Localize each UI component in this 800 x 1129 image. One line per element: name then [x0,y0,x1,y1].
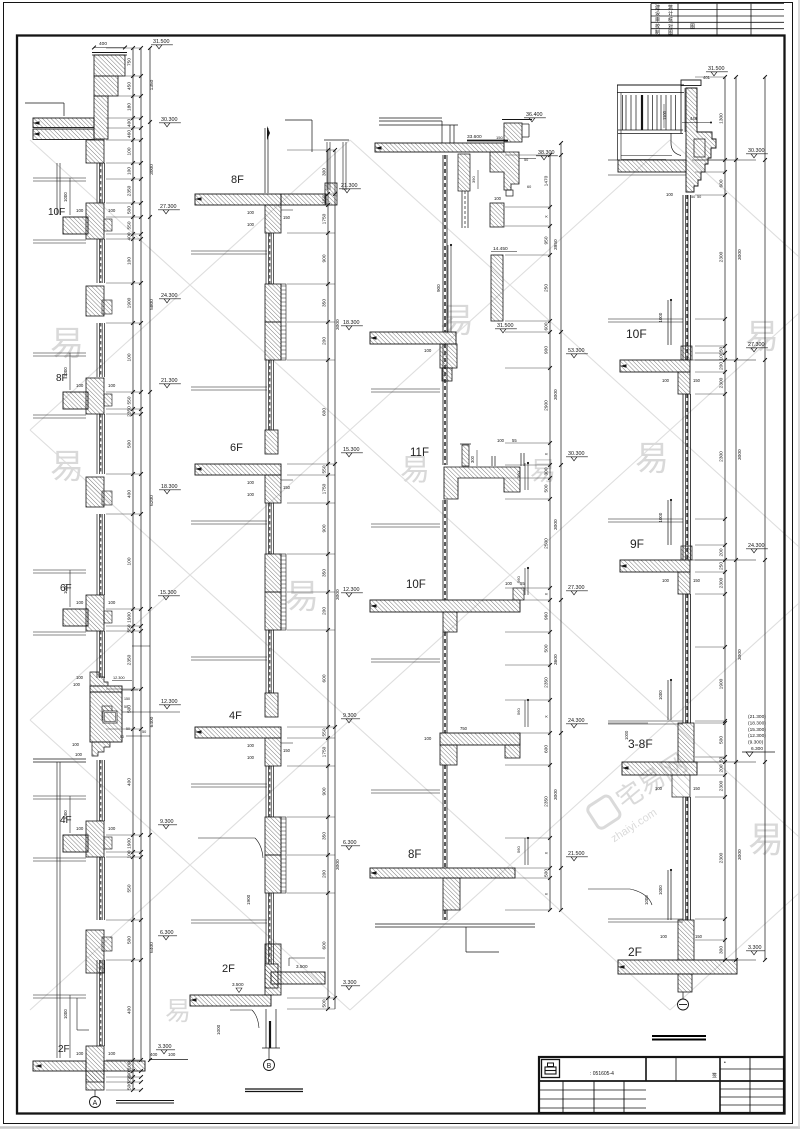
svg-text:200: 200 [719,764,725,772]
svg-text:1900: 1900 [246,894,251,905]
svg-text:900: 900 [322,787,328,795]
svg-text:易: 易 [635,440,669,478]
svg-text:3.300: 3.300 [748,945,762,951]
svg-text:12.300: 12.300 [161,699,178,705]
svg-text:600: 600 [719,179,725,187]
strip B slab 2 [195,727,281,738]
svg-text:400: 400 [150,1052,158,1057]
svg-text:3000: 3000 [553,389,559,400]
strip C floor 8F [370,868,515,878]
strip A section mark A [90,1097,101,1108]
svg-text:150: 150 [124,697,130,701]
svg-text:(18.300): (18.300) [748,720,766,726]
svg-text:900: 900 [436,284,441,292]
strip A windows [96,163,98,203]
svg-text:150: 150 [693,578,701,583]
svg-text:60: 60 [527,185,531,189]
svg-text:核: 核 [668,17,673,24]
svg-text:150: 150 [695,934,703,939]
svg-text:9.300: 9.300 [160,819,174,825]
svg-text:100: 100 [108,826,116,831]
svg-text:500: 500 [322,999,328,1007]
svg-text:6.300: 6.300 [160,930,174,936]
svg-text:55: 55 [512,438,517,443]
svg-text:300: 300 [470,455,475,463]
svg-text:3600: 3600 [553,654,559,665]
svg-text:6400: 6400 [149,942,155,953]
svg-text:18.300: 18.300 [343,320,360,326]
svg-text:100: 100 [76,1051,84,1056]
svg-text:150: 150 [322,195,328,203]
svg-text:180: 180 [127,103,133,111]
svg-text:33.600: 33.600 [467,134,482,140]
svg-text:400: 400 [127,778,133,786]
svg-text:300: 300 [544,467,550,475]
strip D balcony wall [686,88,716,192]
strip B slab 3 [190,995,271,1006]
strip A left rails [56,163,58,215]
strip D rail panel [621,155,672,157]
svg-text:3000: 3000 [335,319,341,330]
svg-text:2300: 2300 [719,577,725,588]
svg-text:100: 100 [108,208,116,213]
svg-text:6.300: 6.300 [343,840,357,846]
svg-text:•: • [724,1060,726,1066]
svg-text:3000: 3000 [335,859,341,870]
strip C sill dim 900 [447,245,449,332]
svg-text:960: 960 [544,612,550,620]
svg-text:14.450: 14.450 [493,246,508,252]
svg-text:500: 500 [127,936,133,944]
top right revision table [651,3,784,5]
strip C parapet [502,119,532,121]
title block logo [542,1060,560,1078]
svg-text:24.300: 24.300 [161,293,178,299]
svg-text:350: 350 [322,299,328,307]
svg-text:易: 易 [745,318,779,356]
svg-text:550: 550 [127,884,133,892]
svg-text:1000: 1000 [63,192,68,202]
svg-text:9.300: 9.300 [343,713,357,719]
svg-text:100: 100 [247,210,255,215]
strip D interior lines [608,318,683,320]
svg-text:3-8F: 3-8F [628,737,653,751]
svg-text:600: 600 [322,674,328,682]
svg-text:500: 500 [544,484,550,492]
svg-text:500: 500 [127,705,133,713]
svg-text:200: 200 [322,870,328,878]
svg-text:(21.300): (21.300) [748,714,766,720]
strip A interior lines [33,177,86,179]
svg-text:8F: 8F [231,174,244,186]
svg-text:校: 校 [655,23,660,30]
svg-text:2300: 2300 [719,852,725,863]
svg-text:600: 600 [544,322,550,330]
svg-text:11F: 11F [410,447,429,459]
svg-text:15.300: 15.300 [343,447,360,453]
svg-text:1900: 1900 [127,297,133,308]
strip C mullion detail [458,154,470,191]
strip C roof beam [490,152,519,190]
svg-text:2300: 2300 [719,780,725,791]
svg-text:350: 350 [322,569,328,577]
strip A roof slabs [33,118,94,128]
strip A balcony detail at 12.300 [90,672,108,686]
svg-text:易: 易 [50,325,84,363]
svg-text:100: 100 [666,192,674,197]
svg-text:1300: 1300 [719,113,725,124]
svg-text:签: 签 [712,1072,717,1079]
svg-text:50: 50 [719,757,725,763]
svg-text:900: 900 [544,346,550,354]
svg-text:2F: 2F [58,1044,70,1055]
svg-text:5800: 5800 [149,299,155,310]
svg-text:3000: 3000 [737,649,743,660]
svg-text:8F: 8F [56,373,68,384]
svg-text:560: 560 [516,576,521,583]
svg-text:448: 448 [690,116,698,121]
strip C floor 24.300 [440,733,520,745]
svg-text:900: 900 [322,254,328,262]
svg-text:600: 600 [544,745,550,753]
title block [539,1057,784,1113]
strip A dimension chain outer [149,48,151,1060]
strip D balcony slab [618,160,686,172]
svg-text:500: 500 [544,644,550,652]
svg-text:12.300: 12.300 [113,676,125,680]
svg-text:100: 100 [497,438,505,443]
svg-text:10F: 10F [626,327,647,341]
svg-text:400: 400 [99,41,107,47]
svg-text:600: 600 [322,408,328,416]
strip C mid slab 31.500 [370,332,456,344]
strip C interior lines [371,388,440,390]
svg-text:3000: 3000 [737,449,743,460]
svg-text:50: 50 [142,730,146,734]
strip C dimension chains [549,155,551,910]
svg-text:550: 550 [127,624,133,632]
svg-text:易: 易 [50,448,84,486]
svg-text:3.500: 3.500 [296,964,308,969]
svg-text:50: 50 [697,195,701,199]
svg-text:500: 500 [127,1082,133,1090]
strip B extension lines [287,149,335,151]
strip D rail cap right [681,80,701,86]
svg-text:150: 150 [496,135,503,140]
svg-text:460: 460 [127,130,133,138]
svg-text:401: 401 [703,75,711,80]
svg-text:200: 200 [719,548,725,556]
svg-text:建: 建 [655,4,660,11]
strip A wall blocks [86,140,104,163]
svg-text:1100: 1100 [662,110,667,120]
svg-text:1000: 1000 [63,1009,68,1019]
svg-text:审: 审 [655,17,660,24]
svg-text:31.500: 31.500 [497,323,514,329]
svg-text:10F: 10F [48,207,65,218]
svg-text:2350: 2350 [127,185,133,196]
svg-text:100: 100 [76,675,84,680]
svg-text:250: 250 [544,284,550,292]
svg-text:B: B [267,1063,272,1070]
svg-text:1750: 1750 [322,746,328,757]
svg-text:450: 450 [127,82,133,90]
svg-text:筑: 筑 [668,4,673,11]
svg-text:: 051605-4: : 051605-4 [590,1071,614,1077]
svg-text:9F: 9F [630,537,644,551]
svg-text:900: 900 [322,524,328,532]
svg-text:2F: 2F [628,945,642,959]
svg-text:24.300: 24.300 [748,543,765,549]
svg-text:3000: 3000 [553,519,559,530]
svg-text:2350: 2350 [127,406,133,417]
svg-text:100: 100 [127,850,133,858]
svg-text:1470: 1470 [544,175,550,186]
svg-text:(12.300): (12.300) [748,733,766,739]
svg-text:100: 100 [662,378,670,383]
svg-text:4F: 4F [60,815,72,826]
svg-text:50: 50 [691,195,695,199]
svg-text:100: 100 [73,682,81,687]
strip A 2F leader bracket [76,998,78,1030]
svg-text:3000: 3000 [149,164,155,175]
strip C floor 11F [444,467,520,499]
svg-text:24.300: 24.300 [568,718,585,724]
svg-text:100: 100 [168,1052,176,1057]
svg-text:100: 100 [127,167,133,175]
svg-text:250: 250 [719,562,725,570]
svg-text:600: 600 [322,941,328,949]
svg-text:1000: 1000 [644,895,649,905]
svg-text:400: 400 [127,490,133,498]
svg-text:27.300: 27.300 [160,204,177,210]
svg-text:30.300: 30.300 [568,451,585,457]
svg-text:150: 150 [693,786,701,791]
svg-text:100: 100 [76,826,84,831]
svg-text:1900: 1900 [127,838,133,849]
strip B interior lines [191,250,267,252]
strip B slab 0 [195,194,281,205]
svg-text:100: 100 [127,257,133,265]
svg-text:390: 390 [471,176,476,183]
svg-text:2350: 2350 [127,654,133,665]
svg-text:560: 560 [516,708,521,715]
strip C bottom termination [375,923,535,925]
strip B slab 1 [195,464,281,475]
strip D outer chain [764,77,766,960]
svg-text:350: 350 [322,832,328,840]
svg-text:500: 500 [127,440,133,448]
svg-text:100: 100 [108,600,116,605]
svg-text:750: 750 [127,58,133,66]
svg-text:图: 图 [668,30,673,36]
svg-text:3000: 3000 [737,249,743,260]
svg-text:对: 对 [668,23,673,30]
strip C floor 10F [370,600,520,612]
strip B windows [265,233,267,284]
watermark diagonals [30,140,800,1010]
svg-text:560: 560 [516,846,521,853]
svg-text:150: 150 [693,378,701,383]
svg-text:1000: 1000 [658,512,663,522]
svg-text:1900: 1900 [127,612,133,623]
strip A parapet [92,52,127,54]
svg-text:图: 图 [690,24,695,30]
svg-text:100: 100 [247,743,255,748]
svg-text:150: 150 [283,215,291,220]
svg-text:100: 100 [424,736,432,741]
svg-text:易: 易 [748,819,784,860]
svg-text:100: 100 [660,934,668,939]
strip C 390 dim [477,170,479,189]
svg-text:300: 300 [322,168,328,176]
strip A sill steps [104,219,112,231]
strip A extension lines [106,47,141,49]
svg-text:3000: 3000 [335,589,341,600]
svg-text:易: 易 [530,456,556,486]
svg-text:100: 100 [247,755,255,760]
svg-text:制: 制 [655,29,660,36]
svg-text:2300: 2300 [719,451,725,462]
svg-text:560: 560 [516,471,521,478]
strip B leaders [198,837,255,839]
strip B bottom [265,1009,267,1048]
svg-text:100: 100 [655,786,663,791]
strip D extension lines [695,76,725,78]
strip C window sill details [524,463,526,490]
svg-text:27.300: 27.300 [568,585,585,591]
strip D dims top [682,122,711,124]
svg-text:400: 400 [127,232,133,240]
svg-text:1350: 1350 [149,79,155,90]
svg-text:53.300: 53.300 [568,348,585,354]
svg-text:150: 150 [283,485,291,490]
svg-text:100: 100 [505,581,513,586]
strip D floor 2F [678,920,694,960]
svg-text:3000: 3000 [553,789,559,800]
svg-text:100: 100 [108,383,116,388]
svg-text:500: 500 [719,736,725,744]
svg-text:21.300: 21.300 [161,378,178,384]
svg-text:200: 200 [719,362,725,370]
svg-text:设: 设 [655,10,660,17]
svg-text:1000: 1000 [216,1024,221,1035]
svg-text:36.400: 36.400 [526,112,543,118]
svg-text:12.300: 12.300 [343,587,360,593]
svg-text:100: 100 [247,492,255,497]
svg-text:1750: 1750 [322,483,328,494]
svg-text:100: 100 [127,1061,133,1069]
svg-text:100: 100 [247,480,255,485]
svg-text:1900: 1900 [719,678,725,689]
svg-text:550: 550 [127,221,133,229]
svg-text:2300: 2300 [719,251,725,262]
svg-text:1750: 1750 [322,213,328,224]
svg-text:3950: 3950 [553,239,559,250]
svg-text:100: 100 [75,752,83,757]
svg-text:6200: 6200 [149,495,155,506]
strip C window main [442,155,444,332]
strip D floor 9F [681,546,692,560]
svg-text:400: 400 [127,119,133,127]
svg-text:(15.300): (15.300) [748,727,766,733]
svg-text:2500: 2500 [544,538,550,549]
svg-text:100: 100 [72,742,80,747]
strip D section mark [682,992,684,999]
svg-text:3.300: 3.300 [158,1044,172,1050]
svg-text:2350: 2350 [544,677,550,688]
svg-text:100: 100 [76,383,84,388]
svg-text:2F: 2F [222,963,235,975]
svg-text:100: 100 [662,578,670,583]
strip A top leader [25,102,64,104]
strip D wall windows [682,195,684,360]
svg-text:18.300: 18.300 [161,484,178,490]
svg-text:300: 300 [719,946,725,954]
svg-text:100: 100 [76,208,84,213]
strip D dimension chain [724,77,726,960]
strip A dimension chain inner [132,48,134,1090]
strip D sill details [667,300,669,345]
svg-text:易: 易 [285,578,319,616]
svg-text:6400: 6400 [149,716,155,727]
strip D floor 3-8F [678,723,694,762]
svg-text:100: 100 [76,600,84,605]
svg-text:31.500: 31.500 [153,39,170,45]
svg-text:A: A [93,1100,98,1107]
svg-text:3000: 3000 [737,849,743,860]
svg-text:3.500: 3.500 [232,982,244,987]
page edge shading [0,1126,800,1128]
svg-text:30.300: 30.300 [161,117,178,123]
svg-text:15.300: 15.300 [160,590,177,596]
svg-text:6.300: 6.300 [751,746,763,752]
svg-text:30.300: 30.300 [748,148,765,154]
strip C extension lines [505,154,550,156]
svg-text:750: 750 [460,726,468,731]
svg-text:100: 100 [127,353,133,361]
svg-text:100: 100 [127,147,133,155]
svg-text:60: 60 [120,735,124,739]
svg-text:2350: 2350 [544,796,550,807]
strip B dimension chain [327,150,329,1009]
svg-text:200: 200 [322,337,328,345]
svg-text:200: 200 [322,607,328,615]
svg-text:550: 550 [127,396,133,404]
svg-text:50: 50 [719,347,725,353]
svg-text:400: 400 [127,1006,133,1014]
svg-text:21.500: 21.500 [568,851,585,857]
watermark logo bottom right [585,747,703,847]
svg-text:100: 100 [719,352,725,360]
svg-text:31.500: 31.500 [708,66,725,72]
svg-text:100: 100 [108,1051,116,1056]
svg-text:2900: 2900 [544,400,550,411]
svg-text:4F: 4F [229,710,242,722]
svg-text:27.300: 27.300 [748,342,765,348]
svg-text:6F: 6F [230,442,243,454]
svg-text:1000: 1000 [658,312,663,322]
svg-text:550: 550 [322,465,328,473]
svg-text:(9.300): (9.300) [748,740,764,746]
svg-text:38.300: 38.300 [538,150,555,156]
svg-text:500: 500 [544,869,550,877]
svg-text:550: 550 [322,728,328,736]
svg-text:计: 计 [668,10,673,17]
svg-text:10F: 10F [406,579,426,591]
strip D railing [617,84,684,86]
strip C top cap [379,117,442,119]
